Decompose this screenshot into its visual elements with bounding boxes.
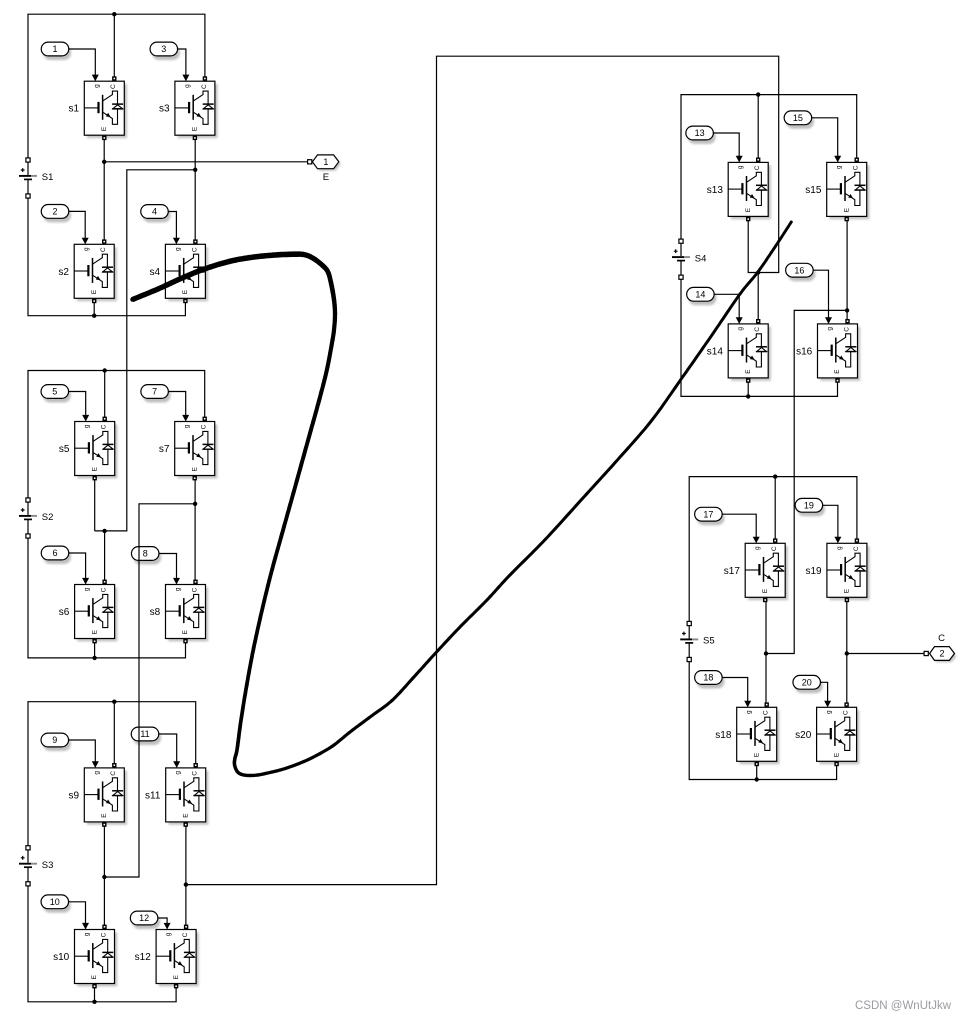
svg-text:s19: s19 <box>805 566 822 577</box>
svg-text:s8: s8 <box>150 607 161 618</box>
wire: S4 positive rail to s13/s15 collectors <box>681 95 857 240</box>
wire: inport 5 to s5 gate <box>69 392 90 422</box>
inport 1 <box>41 42 71 60</box>
svg-text:19: 19 <box>804 501 814 511</box>
inport 20 <box>793 675 823 693</box>
IGBT/diode s12 <box>135 925 199 989</box>
IGBT/diode s2 <box>58 239 117 303</box>
wire: inport 7 to s7 gate <box>168 392 189 422</box>
svg-text:S2: S2 <box>42 512 54 523</box>
inport 7 <box>141 385 171 403</box>
wire: jog to s6 collector <box>104 531 106 585</box>
svg-text:s11: s11 <box>145 790 161 801</box>
IGBT/diode s20 <box>795 702 859 766</box>
svg-text:s16: s16 <box>796 346 813 357</box>
inport 19 <box>795 498 825 516</box>
svg-text:s4: s4 <box>150 267 161 278</box>
inport 8 <box>131 547 161 565</box>
svg-text:16: 16 <box>794 265 804 275</box>
wire: s3 emitter to s4 collector <box>194 135 196 244</box>
wire: s7 emitter to s8 collector <box>194 476 196 585</box>
wire: inport 13 to s13 gate <box>713 133 742 162</box>
svg-text:s10: s10 <box>53 952 70 963</box>
svg-text:s3: s3 <box>159 104 170 115</box>
wire: S2 positive rail to s5/s7 collectors <box>28 371 205 498</box>
wire: inport 1 to s1 gate <box>69 49 99 81</box>
svg-text:20: 20 <box>802 678 812 688</box>
wire: inport 9 to s9 gate <box>69 740 99 768</box>
junction: s17 collector on top rail <box>773 474 777 478</box>
junction: s14 emitter on bottom rail <box>746 394 750 398</box>
IGBT/diode s17 <box>724 538 788 602</box>
svg-text:S5: S5 <box>703 636 715 647</box>
wire: s15 emitter to s16 collector <box>846 217 848 324</box>
inport 3 <box>150 42 180 60</box>
svg-text:s13: s13 <box>707 185 724 196</box>
svg-text:8: 8 <box>143 549 148 559</box>
wire: inport 15 to s15 gate <box>812 118 842 163</box>
svg-text:15: 15 <box>793 113 803 123</box>
wire: node E to connection port 1 <box>104 161 307 163</box>
IGBT/diode s3 <box>159 76 218 140</box>
svg-text:s1: s1 <box>68 104 79 115</box>
connection port 1 (output E) <box>308 155 341 183</box>
IGBT/diode s5 <box>59 417 118 481</box>
wire: inport 11 to s11 gate <box>159 734 181 768</box>
svg-text:s20: s20 <box>795 730 812 741</box>
DC voltage source S5 <box>680 621 714 661</box>
wire: inport 10 to s10 gate <box>69 902 90 930</box>
IGBT/diode s16 <box>796 319 860 383</box>
wire: S3 negative rail to s10/s12 emitters <box>28 886 176 1002</box>
DC voltage source S2 <box>19 498 53 538</box>
IGBT/diode s1 <box>68 76 127 140</box>
svg-text:s7: s7 <box>159 444 170 455</box>
IGBT/diode s18 <box>715 702 779 766</box>
svg-text:1: 1 <box>52 44 57 54</box>
wire: inport 12 to s12 gate <box>158 918 171 930</box>
svg-text:13: 13 <box>695 128 705 138</box>
svg-text:s2: s2 <box>58 267 69 278</box>
svg-text:18: 18 <box>703 673 713 683</box>
DC voltage source S3 <box>19 846 53 886</box>
IGBT/diode s11 <box>145 763 208 827</box>
connection port 2 (output C) <box>924 633 956 663</box>
IGBT/diode s8 <box>150 580 209 644</box>
IGBT/diode s6 <box>59 580 118 644</box>
junction: s2 emitter on bottom rail <box>92 314 96 318</box>
svg-text:17: 17 <box>703 509 713 519</box>
wire: inport 17 to s17 gate <box>722 514 760 543</box>
junction: s6 emitter on bottom rail <box>92 656 96 660</box>
wire: s7/s8 midpoint to s9/s10 midpoint (bridge2 to bridge3 link) <box>104 504 195 877</box>
junction: s13/s14 midpoint <box>756 270 760 274</box>
wire: S3 positive rail to s9/s11 collectors <box>28 702 196 846</box>
wire: inport 6 to s6 gate <box>69 553 89 585</box>
inport 14 <box>687 287 717 305</box>
inport 2 <box>41 205 71 223</box>
wire: s17 emitter to s18 collector <box>765 598 767 708</box>
wire: inport 3 to s3 gate <box>178 49 190 81</box>
wire: S5 negative rail to s18/s20 emitters <box>689 662 836 780</box>
svg-text:5: 5 <box>52 387 57 397</box>
junction: node C tap <box>845 651 849 655</box>
svg-text:S3: S3 <box>42 860 54 871</box>
IGBT/diode s15 <box>805 158 869 222</box>
junction: s17/s18 midpoint <box>764 651 768 655</box>
inport 15 <box>784 111 814 129</box>
inport 18 <box>695 671 725 689</box>
svg-text:9: 9 <box>52 735 57 745</box>
IGBT/diode s10 <box>53 925 117 989</box>
svg-text:s9: s9 <box>68 790 79 801</box>
svg-text:10: 10 <box>50 897 60 907</box>
inport 17 <box>695 507 725 525</box>
svg-text:1: 1 <box>323 157 328 167</box>
wire: S1 positive rail to s1/s3 collectors <box>28 14 205 158</box>
svg-text:3: 3 <box>161 44 166 54</box>
IGBT/diode s7 <box>159 417 218 481</box>
svg-text:7: 7 <box>152 387 157 397</box>
junction: s15/s16 midpoint <box>845 308 849 312</box>
inport 5 <box>41 385 71 403</box>
svg-text:s14: s14 <box>707 346 724 357</box>
wire: s5 emitter down to jog <box>94 476 96 531</box>
inport 10 <box>41 895 71 913</box>
IGBT/diode s4 <box>150 239 209 303</box>
wire: s19 emitter to s20 collector <box>846 598 848 708</box>
IGBT/diode s13 <box>707 158 771 222</box>
junction: s9 collector on top rail <box>112 700 116 704</box>
IGBT/diode s19 <box>805 538 869 602</box>
svg-text:E: E <box>323 172 329 183</box>
IGBT/diode s14 <box>707 319 771 383</box>
inport 6 <box>41 546 71 564</box>
junction: s13 collector on top rail <box>756 92 760 96</box>
svg-text:6: 6 <box>52 548 57 558</box>
junction: s3/s4 midpoint <box>193 168 197 172</box>
inport 4 <box>141 205 171 223</box>
junction: s9/s10 midpoint <box>102 875 106 879</box>
svg-text:14: 14 <box>695 290 705 300</box>
wire: s9 emitter to s10 collector <box>103 822 105 929</box>
svg-text:s12: s12 <box>135 952 152 963</box>
svg-text:s5: s5 <box>59 444 70 455</box>
junction: s5 collector on top rail <box>103 368 107 372</box>
svg-text:s17: s17 <box>724 566 741 577</box>
wire: S5 positive rail to s17/s19 collectors <box>689 477 857 622</box>
junction: s5/s6 midpoint <box>102 529 106 533</box>
svg-text:C: C <box>938 633 945 644</box>
wire: S1 negative rail to s2/s4 emitters <box>28 198 185 315</box>
inport 16 <box>786 263 816 281</box>
svg-text:s18: s18 <box>715 730 732 741</box>
svg-text:s15: s15 <box>805 185 822 196</box>
inport 12 <box>130 911 160 929</box>
junction: node E tap <box>102 160 106 164</box>
DC voltage source S1 <box>19 158 53 198</box>
wire: inport 14 to s14 gate <box>714 294 743 324</box>
inport 9 <box>41 733 71 751</box>
wire: inport 8 to s8 gate <box>159 554 180 585</box>
wire: s11/s12 midpoint up and over to s13/s14 midpoint (bridge3 to bridge4 link) <box>186 56 779 884</box>
svg-text:2: 2 <box>52 207 57 217</box>
wire: s15/s16 midpoint down to s17/s18 midpoint (bridge4 to bridge5 link) <box>766 310 847 653</box>
junction: s7/s8 midpoint <box>193 502 197 506</box>
svg-text:12: 12 <box>139 913 149 923</box>
wire: S4 negative rail to s14/s16 emitters <box>681 280 838 397</box>
wire: s3/s4 midpoint to s5/s6 midpoint (bridge1 to bridge2 link) <box>95 170 196 531</box>
wire: inport 4 to s4 gate <box>168 212 180 245</box>
wire: s11 emitter to s12 collector <box>185 822 187 929</box>
junction: s11/s12 midpoint <box>184 882 188 886</box>
wire: s13 emitter jog to s14 collector <box>748 217 758 324</box>
svg-text:2: 2 <box>939 649 944 659</box>
svg-text:S4: S4 <box>695 253 707 264</box>
junction: s18 emitter on bottom rail <box>755 777 759 781</box>
svg-text:CSDN @WnUtJkw: CSDN @WnUtJkw <box>855 1000 952 1012</box>
inport 13 <box>686 126 716 144</box>
IGBT/diode s9 <box>68 763 127 827</box>
annotation: freehand curve stroke <box>130 220 792 776</box>
junction: s10 emitter on bottom rail <box>92 1000 96 1004</box>
wire: inport 18 to s18 gate <box>722 678 751 708</box>
inport 11 <box>131 727 161 745</box>
wire: inport 16 to s16 gate <box>813 270 832 324</box>
svg-text:s6: s6 <box>59 607 70 618</box>
DC voltage source S4 <box>672 239 706 279</box>
wire: S2 negative rail to s6/s8 emitters <box>28 538 186 658</box>
wire: s1 emitter to s2 collector <box>103 135 105 244</box>
wire: node C to connection port 2 <box>847 653 924 655</box>
wire: inport 2 to s2 gate <box>69 211 89 244</box>
wire: inport 19 to s19 gate <box>823 505 842 543</box>
svg-text:4: 4 <box>152 207 157 217</box>
svg-text:S1: S1 <box>42 172 54 183</box>
svg-text:11: 11 <box>140 729 149 739</box>
wire: inport 20 to s20 gate <box>820 682 831 707</box>
junction: s1 collector on top rail <box>112 12 116 16</box>
